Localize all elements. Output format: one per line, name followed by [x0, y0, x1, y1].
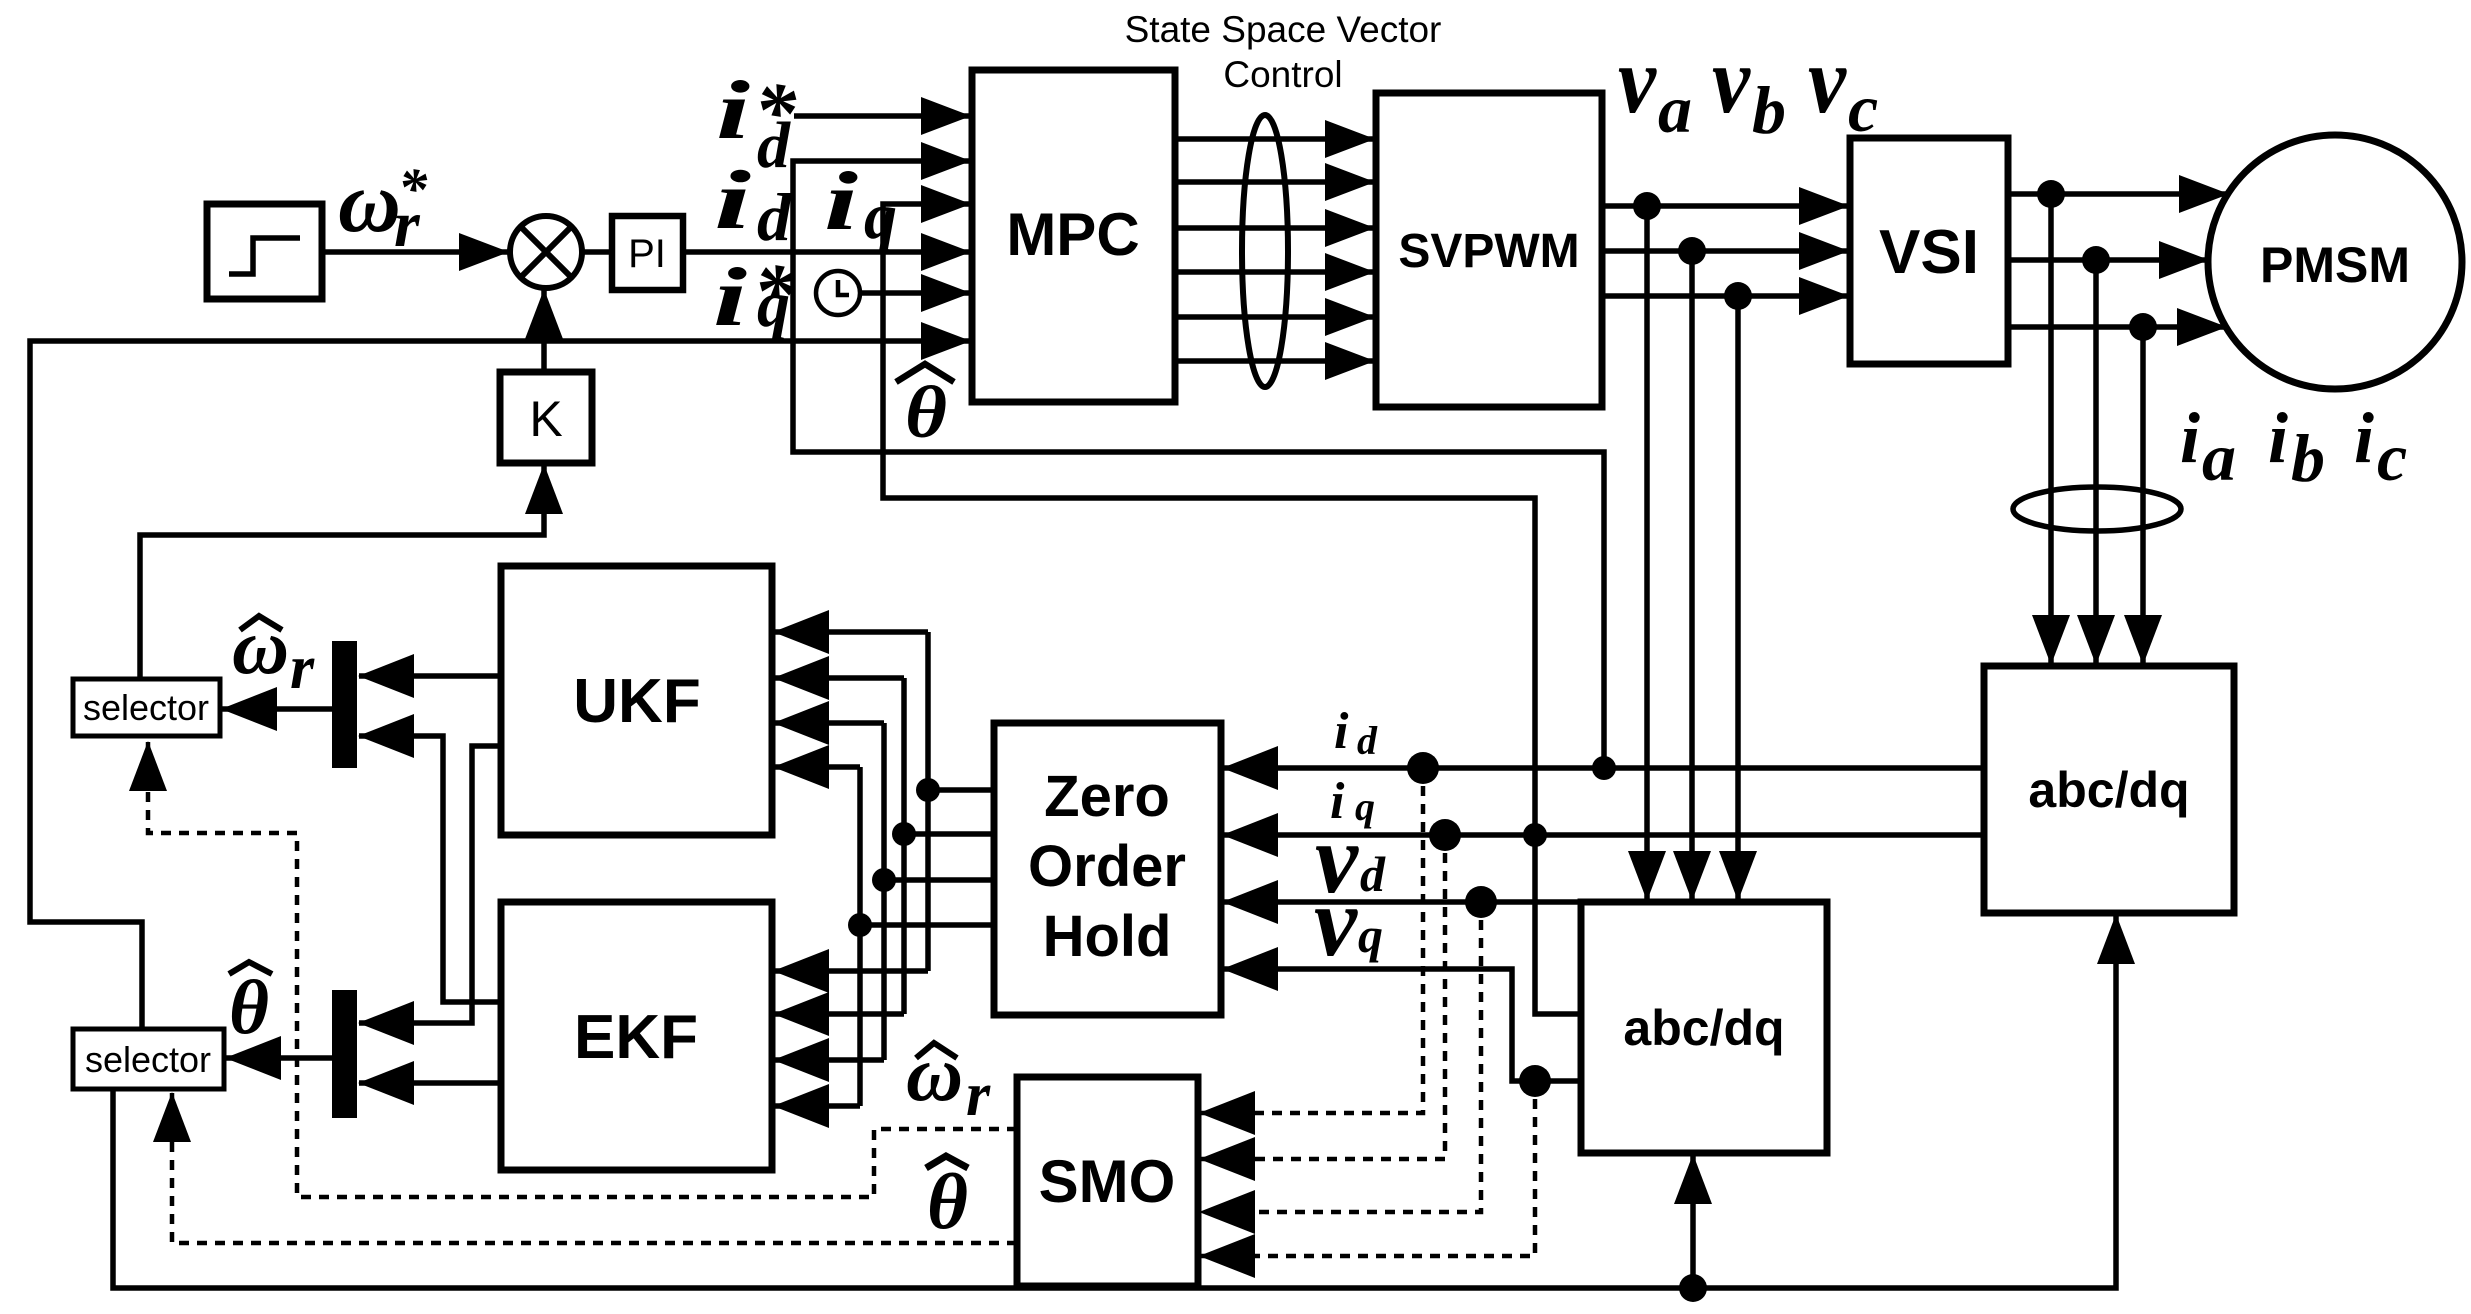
svg-text:θ: θ — [927, 1159, 968, 1246]
svg-text:r: r — [966, 1061, 991, 1129]
svg-text:i: i — [2268, 398, 2288, 478]
svg-text:a: a — [1658, 71, 1692, 147]
svg-text:PMSM: PMSM — [2260, 237, 2410, 293]
svg-text:Order: Order — [1028, 834, 1186, 899]
svg-text:SMO: SMO — [1039, 1148, 1176, 1215]
svg-text:q: q — [1355, 784, 1375, 829]
svg-text:i: i — [2354, 398, 2374, 478]
svg-text:UKF: UKF — [573, 667, 700, 736]
svg-text:i: i — [1334, 703, 1349, 760]
svg-text:Zero: Zero — [1044, 764, 1170, 829]
svg-text:i: i — [714, 154, 751, 247]
svg-text:i: i — [716, 64, 750, 157]
svg-text:v: v — [1808, 27, 1847, 133]
svg-text:Hold: Hold — [1043, 904, 1172, 969]
svg-text:i: i — [2180, 398, 2200, 478]
svg-text:q: q — [864, 180, 897, 253]
svg-text:selector: selector — [83, 687, 209, 728]
svg-text:EKF: EKF — [574, 1003, 698, 1072]
svg-text:c: c — [1848, 70, 1878, 146]
svg-text:b: b — [2291, 420, 2325, 496]
svg-text:b: b — [1752, 72, 1786, 148]
svg-text:selector: selector — [85, 1039, 211, 1080]
svg-text:SVPWM: SVPWM — [1398, 225, 1579, 278]
svg-text:State Space Vector: State Space Vector — [1125, 9, 1442, 50]
svg-text:Control: Control — [1223, 54, 1342, 95]
svg-text:d: d — [1360, 846, 1386, 902]
svg-text:abc/dq: abc/dq — [1623, 1000, 1784, 1056]
svg-text:r: r — [394, 188, 421, 261]
svg-text:abc/dq: abc/dq — [2028, 762, 2189, 818]
svg-text:PI: PI — [628, 232, 666, 276]
svg-text:θ: θ — [905, 372, 947, 454]
svg-text:v: v — [1314, 866, 1359, 977]
svg-text:q: q — [1358, 907, 1383, 963]
svg-text:K: K — [529, 391, 562, 447]
svg-text:v: v — [1618, 27, 1657, 133]
svg-text:ω: ω — [338, 153, 401, 250]
svg-text:a: a — [2202, 419, 2236, 495]
svg-text:v: v — [1712, 27, 1751, 133]
svg-text:i: i — [713, 251, 747, 344]
svg-text:q: q — [757, 268, 790, 341]
svg-text:θ: θ — [229, 964, 269, 1050]
svg-text:VSI: VSI — [1879, 218, 1979, 287]
svg-text:d: d — [1357, 718, 1378, 763]
svg-text:c: c — [2377, 419, 2407, 495]
svg-text:i: i — [824, 155, 858, 248]
svg-text:MPC: MPC — [1006, 201, 1139, 268]
svg-text:d: d — [757, 109, 791, 182]
svg-text:r: r — [290, 634, 315, 702]
svg-text:d: d — [757, 179, 792, 255]
